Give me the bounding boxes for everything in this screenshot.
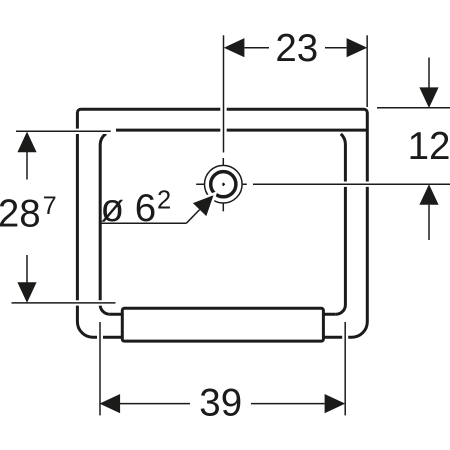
dimension 23: extension line left / hole centerline upper bbox=[223, 35, 225, 152]
hole centerline vertical dashes bbox=[222, 158, 224, 211]
dimension 23: dimension line bbox=[245, 47, 347, 49]
dimension 287: arrowhead up bbox=[17, 132, 36, 153]
dimension 287: reference line top bbox=[16, 130, 111, 132]
dimension 39: arrowhead right bbox=[325, 394, 346, 413]
basin inner wall left bbox=[100, 134, 110, 315]
dimension 12: reference line bottom / hole centerline right bbox=[253, 183, 450, 185]
hole centerline horizontal dashes bbox=[196, 183, 247, 185]
dimension 39: extension line right bbox=[344, 322, 346, 415]
svg-text:23: 23 bbox=[275, 27, 318, 70]
dimension 12: reference line top bbox=[377, 107, 450, 109]
dimension 287: arrowhead down bbox=[17, 282, 36, 303]
front rail bar bbox=[122, 308, 323, 341]
leader arrow halo bbox=[193, 195, 214, 216]
dimension 23: arrowhead right bbox=[347, 38, 368, 57]
svg-text:12: 12 bbox=[408, 125, 450, 168]
overflow hole thin circle bbox=[205, 165, 243, 203]
dimension 12: arrow shafts bbox=[428, 58, 430, 241]
svg-text:39: 39 bbox=[199, 382, 242, 425]
dimension 39: extension line left bbox=[99, 322, 101, 415]
basin inner bottom line bbox=[110, 313, 336, 316]
dimension 23: extension line right bbox=[366, 35, 368, 107]
dimension 39: dimension line bbox=[120, 403, 325, 405]
sink outer outline bbox=[77, 109, 367, 337]
svg-text:ø 6: ø 6 bbox=[101, 187, 157, 230]
label leader arrowhead bbox=[193, 195, 214, 216]
rim inner ledge line bbox=[116, 129, 367, 132]
dimension 287: dimension line shaft bbox=[26, 152, 28, 283]
svg-text:7: 7 bbox=[43, 192, 57, 220]
dimension 23: arrowhead left bbox=[224, 38, 245, 57]
dimension 12: arrowhead up bbox=[419, 184, 438, 205]
dimension 287: reference line bottom bbox=[12, 302, 116, 304]
label leader line diagonal bbox=[186, 210, 199, 224]
basin inner wall right bbox=[336, 134, 346, 314]
dimension 39: arrowhead left bbox=[100, 394, 121, 413]
svg-text:2: 2 bbox=[157, 187, 171, 215]
overflow hole thick ring bbox=[211, 172, 236, 197]
svg-text:28: 28 bbox=[0, 193, 41, 236]
dimension 12: arrowhead down bbox=[419, 87, 438, 108]
label leader line horizontal bbox=[100, 222, 186, 224]
